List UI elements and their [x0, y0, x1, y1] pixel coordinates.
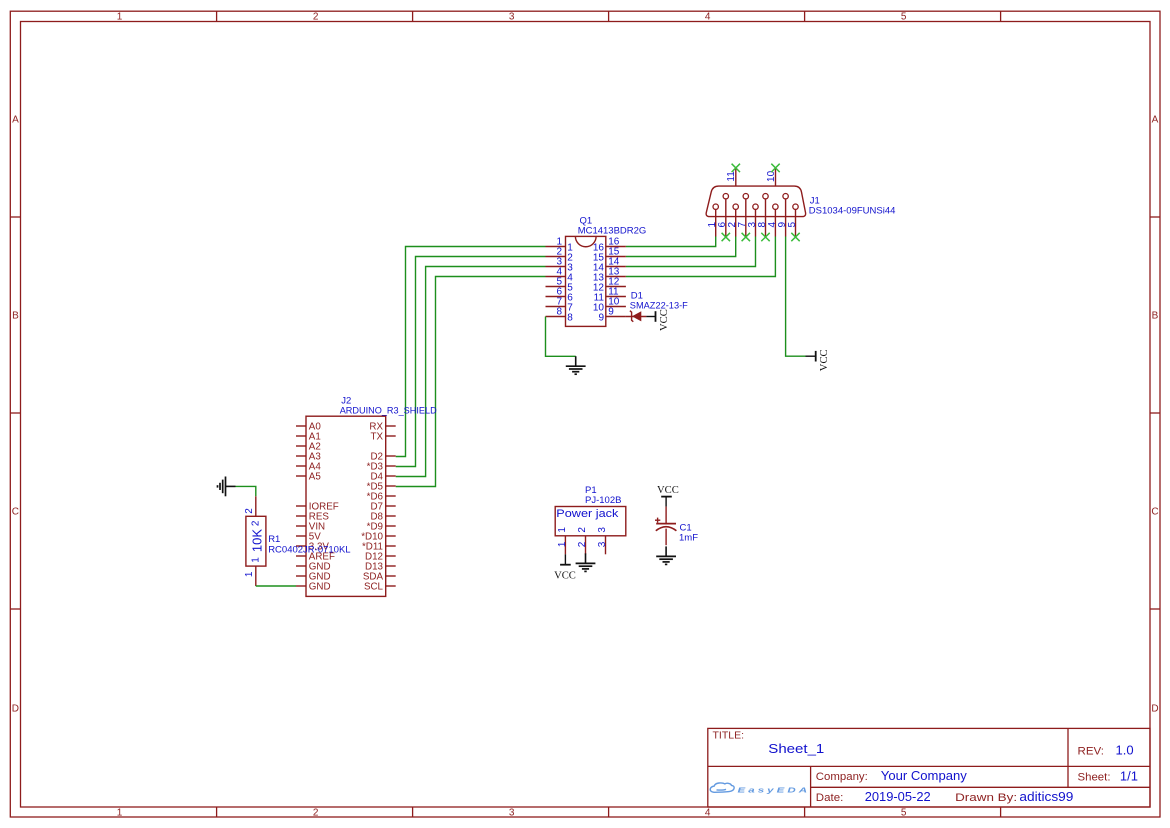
- diode D1 zener SMAZ22-13-F: [626, 291, 688, 322]
- ground under Q1: [566, 356, 586, 374]
- J2 body: [306, 416, 386, 596]
- wire Q1 pin16 to J1 pin1: [626, 237, 716, 247]
- VCC flag at J1 pin9: [806, 349, 831, 371]
- J1 top row pin circles 6-9: [723, 194, 788, 199]
- svg-text:Date:: Date:: [816, 792, 844, 804]
- svg-text:5: 5: [901, 12, 907, 23]
- svg-text:1.0: 1.0: [1116, 743, 1134, 758]
- J2 right pin leads: [386, 426, 396, 586]
- svg-text:5: 5: [901, 807, 907, 818]
- J2 right pin names: [361, 422, 383, 593]
- svg-text:A: A: [12, 115, 19, 126]
- Q1 right pin leads: [606, 247, 626, 317]
- wire ground to R1 pin2: [236, 486, 256, 496]
- svg-text:10K: 10K: [249, 529, 264, 552]
- svg-text:A5: A5: [309, 472, 322, 483]
- J1 bottom row pin circles 1-5: [713, 204, 798, 209]
- svg-text:8: 8: [556, 307, 562, 318]
- C1 bottom plate arc: [656, 527, 677, 531]
- svg-text:1: 1: [244, 571, 255, 577]
- svg-text:B: B: [1152, 311, 1159, 322]
- P1 pin leads: [565, 536, 605, 555]
- svg-text:1: 1: [117, 12, 123, 23]
- svg-text:Company:: Company:: [816, 771, 868, 783]
- wire J1 pin9 to VCC: [786, 237, 806, 357]
- svg-text:B: B: [12, 311, 19, 322]
- Q1 inner pin names left: [567, 242, 573, 323]
- R1 body: [246, 516, 266, 566]
- J1 no-connect X pin7: [742, 233, 750, 241]
- VCC flag above C1: [657, 485, 679, 506]
- svg-text:VCC: VCC: [659, 309, 670, 331]
- svg-text:Power jack: Power jack: [556, 508, 619, 520]
- C1 bottom lead: [665, 529, 667, 546]
- ground under C1: [656, 546, 676, 564]
- svg-text:D: D: [12, 704, 19, 715]
- R1 pin1 lead: [255, 566, 257, 586]
- svg-text:2: 2: [577, 527, 588, 533]
- C1 plus sign: [655, 518, 660, 523]
- svg-text:DS1034-09FUNSi44: DS1034-09FUNSi44: [809, 206, 896, 217]
- P1 inner pin names: [557, 527, 608, 533]
- svg-text:Drawn By:: Drawn By:: [955, 792, 1017, 804]
- J1 top pin leads 11,10: [736, 168, 776, 186]
- svg-text:3: 3: [509, 807, 515, 818]
- svg-text:1: 1: [557, 541, 568, 547]
- IC Q1 MC1413BDR2G: [546, 216, 647, 327]
- P1 body: [555, 507, 626, 536]
- resistor R1 10K: [244, 496, 351, 586]
- wire Q1 pin13 to J1 pin4: [626, 237, 776, 277]
- J1 bottom pin leads: [716, 199, 796, 237]
- wire Q1 pin15 to J1 pin2: [626, 237, 736, 257]
- J1 top pin numbers 11,10: [726, 170, 777, 182]
- svg-text:2: 2: [577, 541, 588, 547]
- svg-text:Your Company: Your Company: [881, 768, 968, 783]
- wire J2 D5 to Q1 pin4: [396, 277, 546, 487]
- J1 no-connect X pin5: [791, 233, 799, 241]
- svg-text:1/1: 1/1: [1120, 769, 1138, 784]
- Q1 outer pin numbers right: [608, 237, 620, 318]
- wire Q1 pin14 to J1 pin3: [626, 237, 756, 267]
- Q1 outer pin numbers left: [556, 237, 562, 318]
- J1 body: [706, 186, 805, 217]
- EasyEDA logo: [710, 783, 810, 795]
- J2 left pin names: [309, 422, 339, 593]
- svg-text:TITLE:: TITLE:: [713, 730, 745, 742]
- svg-text:8: 8: [567, 312, 573, 323]
- svg-text:Sheet_1: Sheet_1: [768, 741, 824, 756]
- svg-text:2: 2: [313, 12, 319, 23]
- wire J2 D4 to Q1 pin3: [396, 267, 546, 477]
- svg-text:ARDUINO_R3_SHIELD: ARDUINO_R3_SHIELD: [340, 406, 437, 417]
- svg-text:R1: R1: [268, 534, 280, 545]
- svg-text:MC1413BDR2G: MC1413BDR2G: [578, 226, 647, 237]
- svg-text:EasyEDA: EasyEDA: [738, 787, 811, 795]
- svg-text:1mF: 1mF: [679, 532, 698, 543]
- svg-text:C: C: [12, 507, 19, 518]
- svg-text:11: 11: [726, 171, 737, 182]
- svg-text:VCC: VCC: [554, 570, 576, 581]
- C1 top lead: [665, 507, 667, 524]
- ground under P1 pin2: [576, 553, 596, 571]
- svg-text:2: 2: [313, 807, 319, 818]
- svg-text:3: 3: [597, 541, 608, 547]
- svg-text:Sheet:: Sheet:: [1078, 772, 1111, 784]
- svg-text:3: 3: [597, 527, 608, 533]
- svg-text:VCC: VCC: [819, 349, 830, 371]
- wire R1 pin1 to J2 GND: [256, 585, 296, 587]
- P1 outer pin numbers: [557, 541, 608, 547]
- J1 bottom pin numbers: [707, 221, 798, 227]
- svg-text:4: 4: [705, 807, 711, 818]
- svg-text:2: 2: [244, 508, 255, 514]
- wire Q1 pin8 to ground: [546, 317, 576, 357]
- power jack P1 PJ-102B: [555, 485, 626, 554]
- svg-text:1: 1: [117, 807, 123, 818]
- svg-text:5: 5: [787, 221, 798, 227]
- svg-text:9: 9: [608, 307, 614, 318]
- VCC flag at D1: [646, 309, 670, 331]
- svg-text:VCC: VCC: [657, 485, 679, 496]
- J2 left pin leads: [296, 426, 306, 586]
- svg-text:REV:: REV:: [1078, 746, 1105, 758]
- Q1 notch: [575, 236, 596, 246]
- title block: [708, 728, 1150, 807]
- svg-text:4: 4: [705, 12, 711, 23]
- svg-text:2: 2: [251, 520, 262, 526]
- svg-text:TX: TX: [370, 432, 383, 443]
- connector J2 ARDUINO_R3_SHIELD: [296, 396, 437, 597]
- VCC flag under P1 pin1: [554, 554, 576, 581]
- capacitor C1 1mF polarized: [655, 507, 698, 546]
- svg-text:GND: GND: [309, 582, 331, 593]
- wire J2 D3 to Q1 pin2: [396, 257, 546, 467]
- svg-text:9: 9: [598, 312, 604, 323]
- svg-text:D: D: [1151, 704, 1158, 715]
- J1 no-connect X pin8: [761, 233, 769, 241]
- J1 no-connect X pin10: [771, 164, 779, 172]
- svg-text:1: 1: [251, 557, 262, 563]
- J1 no-connect X pin6: [722, 233, 730, 241]
- svg-text:PJ-102B: PJ-102B: [585, 495, 621, 506]
- svg-text:A: A: [1152, 115, 1159, 126]
- C1 top plate: [656, 523, 676, 525]
- connector J1 DS1034-09FUNSi44 (DB9): [706, 164, 895, 242]
- R1 pin2 lead: [255, 496, 257, 516]
- wire J2 D2 to Q1 pin1: [396, 247, 546, 457]
- svg-text:C: C: [1151, 507, 1158, 518]
- svg-text:2019-05-22: 2019-05-22: [865, 789, 931, 804]
- svg-text:RC0402JR-0710KL: RC0402JR-0710KL: [268, 545, 350, 556]
- svg-text:aditics99: aditics99: [1019, 789, 1073, 804]
- Q1 left pin leads: [546, 247, 566, 317]
- J1 no-connect X pin11: [732, 164, 740, 172]
- svg-text:3: 3: [509, 12, 515, 23]
- Q1 inner pin names right: [593, 242, 605, 323]
- ground left of R1: [218, 477, 236, 497]
- Q1 body: [566, 236, 606, 326]
- svg-text:1: 1: [557, 527, 568, 533]
- svg-text:SCL: SCL: [364, 582, 384, 593]
